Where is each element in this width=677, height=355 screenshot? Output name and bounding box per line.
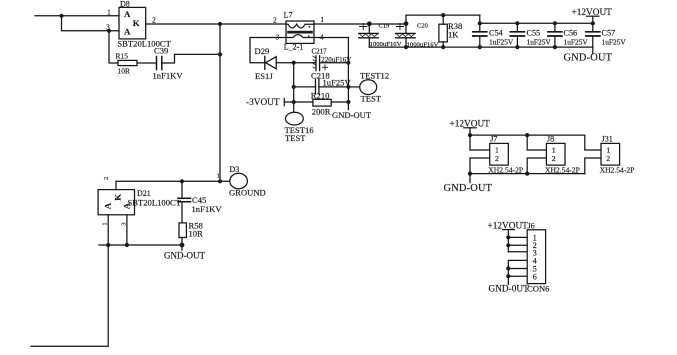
wire j6 pin6 stub xyxy=(508,275,527,277)
wire j6 pin3 stub xyxy=(508,251,527,253)
svg-text:3: 3 xyxy=(276,32,280,41)
node C20 top xyxy=(404,21,409,26)
power port +12VOUT j7 xyxy=(450,120,491,150)
svg-text:C54: C54 xyxy=(489,28,503,37)
svg-text:L7: L7 xyxy=(284,11,293,20)
connector J8 xyxy=(545,135,580,175)
wire j7 pin1 xyxy=(470,149,490,151)
capacitor C57 xyxy=(586,23,627,47)
capacitor C218 xyxy=(311,71,351,95)
wire j31 pin1 xyxy=(585,135,601,150)
wire input top to D8 pin1 xyxy=(35,15,119,17)
svg-text:2: 2 xyxy=(152,16,156,25)
node r58 bottom xyxy=(180,243,185,248)
test point TEST12 xyxy=(360,71,389,104)
svg-text:GND-OUT: GND-OUT xyxy=(564,53,613,64)
svg-text:C20: C20 xyxy=(417,23,428,30)
svg-text:D29: D29 xyxy=(255,46,270,56)
svg-text:3: 3 xyxy=(106,22,110,31)
node c56 top xyxy=(553,21,557,25)
capacitor C20 polarized xyxy=(396,23,439,49)
wire D21 top row xyxy=(116,180,230,182)
wire hi rail jog down xyxy=(480,15,593,23)
svg-text:D8: D8 xyxy=(120,0,130,8)
svg-text:1uF25V: 1uF25V xyxy=(489,38,514,47)
node left vbus r210 xyxy=(292,100,296,104)
svg-text:3: 3 xyxy=(121,222,128,225)
svg-text:A: A xyxy=(124,27,131,37)
node j7 rail top xyxy=(468,133,472,137)
connector J31 xyxy=(600,135,635,175)
wire L7 pin3 down to D29 xyxy=(250,38,286,63)
svg-text:2: 2 xyxy=(606,154,610,163)
capacitor C217 xyxy=(312,47,352,70)
node C19 top xyxy=(367,21,372,26)
svg-text:6: 6 xyxy=(533,272,537,281)
wire R210 to gnd bus xyxy=(331,101,348,103)
wire L7 pin1 to C19 xyxy=(314,23,369,25)
wire bus to L7 pin2 xyxy=(220,23,286,25)
wire j6 pin2 stub xyxy=(508,244,527,246)
svg-text:1uF25V: 1uF25V xyxy=(602,38,627,47)
node c45 top tee xyxy=(180,179,184,183)
node gnd c55 xyxy=(515,45,519,49)
node left vbus c218 xyxy=(292,85,296,89)
node gnd c56 xyxy=(553,45,557,49)
node j6 pin6 xyxy=(506,274,510,278)
capacitor C54 xyxy=(473,23,514,47)
node gnd c54 xyxy=(478,45,482,49)
wire left vertical to test16 xyxy=(293,63,295,112)
power port GND-OUT j7 xyxy=(444,174,493,194)
power port GND-OUT topright xyxy=(564,47,613,64)
svg-text:1: 1 xyxy=(217,174,220,180)
diode D8 xyxy=(106,0,172,49)
wire L7 pin4 to gnd bus xyxy=(314,38,348,105)
svg-text:GND-0UT: GND-0UT xyxy=(489,284,530,294)
svg-text:C55: C55 xyxy=(527,28,541,37)
svg-text:C39: C39 xyxy=(154,46,168,56)
svg-text:TEST: TEST xyxy=(361,94,382,104)
test point D3 GROUND xyxy=(217,165,266,198)
svg-text:SBT20L100CT: SBT20L100CT xyxy=(128,197,182,207)
node left vbus top xyxy=(292,61,296,65)
capacitor C56 xyxy=(548,23,588,47)
resistor R15 xyxy=(116,52,138,76)
capacitor C45 xyxy=(178,181,222,223)
wire j31 pin2 xyxy=(585,158,601,174)
diode D29 xyxy=(255,46,277,81)
power port GND-OUT mid xyxy=(332,105,372,120)
wire up-jog to hi rail xyxy=(406,15,480,24)
power port GND-0UT j6 xyxy=(489,284,530,294)
wire j6 pin4 stub xyxy=(508,260,527,284)
resistor R58 xyxy=(179,221,203,245)
svg-text:1nF1KV: 1nF1KV xyxy=(153,71,184,81)
capacitor C55 xyxy=(510,23,551,47)
svg-text:2: 2 xyxy=(495,154,499,163)
svg-text:K: K xyxy=(133,18,140,28)
node bus top xyxy=(218,22,222,26)
svg-text:J8: J8 xyxy=(547,135,554,144)
node gnd bus c218 xyxy=(346,85,350,89)
wire vertical bus xyxy=(219,24,221,181)
svg-text:K: K xyxy=(112,194,122,201)
node gnd bus r210 xyxy=(346,100,350,104)
svg-text:GND-OUT: GND-OUT xyxy=(164,250,205,260)
svg-text:1: 1 xyxy=(102,222,109,225)
svg-text:R15: R15 xyxy=(116,52,129,61)
svg-text:GND-OUT: GND-OUT xyxy=(444,183,493,194)
wire bottom-left return xyxy=(31,245,108,346)
node bus bottom tee xyxy=(218,179,222,183)
node input junction xyxy=(59,14,63,18)
wire j6 pin1 stub xyxy=(508,236,527,238)
wire j7 pin2 xyxy=(470,158,490,174)
node gnd r38 xyxy=(441,45,445,49)
svg-text:1K: 1K xyxy=(448,30,459,40)
node j6 pin1 xyxy=(506,235,510,239)
svg-text:C57: C57 xyxy=(602,28,616,37)
node bus C39 row xyxy=(218,52,222,56)
svg-text:ES1J: ES1J xyxy=(255,71,273,81)
svg-text:1: 1 xyxy=(320,15,324,24)
svg-text:200R: 200R xyxy=(312,107,331,117)
svg-text:2: 2 xyxy=(552,154,556,163)
wire C218 row xyxy=(294,86,316,88)
node j6 pin5 xyxy=(506,266,510,270)
svg-text:D3: D3 xyxy=(230,165,240,174)
svg-text:-3VOUT: -3VOUT xyxy=(246,98,280,108)
node gnd bus c217 xyxy=(346,61,350,65)
wire gnd rail caps xyxy=(369,46,593,48)
svg-text:C56: C56 xyxy=(564,28,578,37)
svg-text:XH2.54-2P: XH2.54-2P xyxy=(545,166,580,175)
svg-text:J7: J7 xyxy=(490,135,497,144)
svg-text:10R: 10R xyxy=(189,229,204,239)
diode D21 xyxy=(98,177,182,245)
wire D21 bottom rail xyxy=(99,244,182,246)
wire R15 to C39 xyxy=(137,62,157,64)
wire gnd rail j7 xyxy=(470,173,585,175)
connector J6 CON6 xyxy=(527,230,545,284)
svg-text:TEST: TEST xyxy=(285,133,306,143)
svg-text:CON6: CON6 xyxy=(527,283,550,293)
wire C39 to bus with jog xyxy=(162,54,220,63)
node j8 gnd rail xyxy=(525,172,529,176)
svg-text:J6: J6 xyxy=(528,222,535,231)
svg-text:1uF25V: 1uF25V xyxy=(527,38,552,47)
svg-text:2: 2 xyxy=(103,177,110,180)
node c55 top xyxy=(515,21,519,25)
node c57 top xyxy=(591,21,595,25)
svg-text:C19: C19 xyxy=(379,23,390,30)
svg-text:L_2-1: L_2-1 xyxy=(284,42,304,51)
resistor R210 xyxy=(311,91,331,117)
wire -3VOUT to R210 xyxy=(284,101,313,103)
svg-text:XH2.54-2P: XH2.54-2P xyxy=(600,166,635,175)
svg-text:C217: C217 xyxy=(312,47,328,55)
svg-text:J31: J31 xyxy=(602,135,613,144)
wire j6 pin5 stub xyxy=(508,268,527,270)
svg-text:2: 2 xyxy=(273,15,277,24)
svg-text:1: 1 xyxy=(107,7,111,16)
power port +12VOUT top xyxy=(572,8,613,23)
svg-text:GND-OUT: GND-OUT xyxy=(332,110,372,120)
wire +12 rail j7 xyxy=(470,134,585,136)
capacitor C39 xyxy=(153,46,184,81)
svg-text:A: A xyxy=(124,9,131,19)
node pin3 junction xyxy=(107,29,111,33)
node j6 pin2 xyxy=(506,243,510,247)
capacitor C19 polarized xyxy=(359,23,402,49)
svg-text:A: A xyxy=(103,202,113,209)
power port GND-OUT d21 xyxy=(164,245,205,260)
wire C19 to C20 top xyxy=(369,23,406,25)
wire D29 to C217 xyxy=(276,62,316,64)
wire bus to TEST12 xyxy=(348,86,359,88)
svg-text:R210: R210 xyxy=(311,91,330,101)
node d21 pin3 xyxy=(125,243,129,247)
node j7 gnd rail xyxy=(468,172,472,176)
svg-text:GROUND: GROUND xyxy=(229,188,266,198)
wire D8 pin2 to bus xyxy=(146,23,220,25)
port -3VOUT xyxy=(246,98,284,108)
resistor R38 xyxy=(439,15,462,47)
node c54 top xyxy=(478,21,482,25)
svg-text:1nF1KV: 1nF1KV xyxy=(192,204,223,214)
node j8 rail top xyxy=(525,133,529,137)
wire pin3 down to snubber xyxy=(109,31,118,63)
svg-text:TEST12: TEST12 xyxy=(360,71,389,81)
wire C217 to gnd bus xyxy=(320,62,349,64)
power port +12VOUT j6 xyxy=(488,222,529,252)
svg-text:1uF25V: 1uF25V xyxy=(564,38,589,47)
svg-text:10R: 10R xyxy=(118,67,131,76)
wire C218 to gnd bus xyxy=(319,86,349,88)
node R38 top xyxy=(441,13,445,17)
wire j8 pin1 xyxy=(527,135,546,150)
inductor L7 common-mode choke xyxy=(273,11,324,52)
test point TEST16 xyxy=(285,112,315,143)
wire input drop to pin3 row xyxy=(62,16,120,31)
node gnd c20 xyxy=(404,45,408,49)
node d21 pin1 xyxy=(106,243,110,247)
wire j8 pin2 xyxy=(527,158,546,174)
connector J7 xyxy=(488,135,523,175)
